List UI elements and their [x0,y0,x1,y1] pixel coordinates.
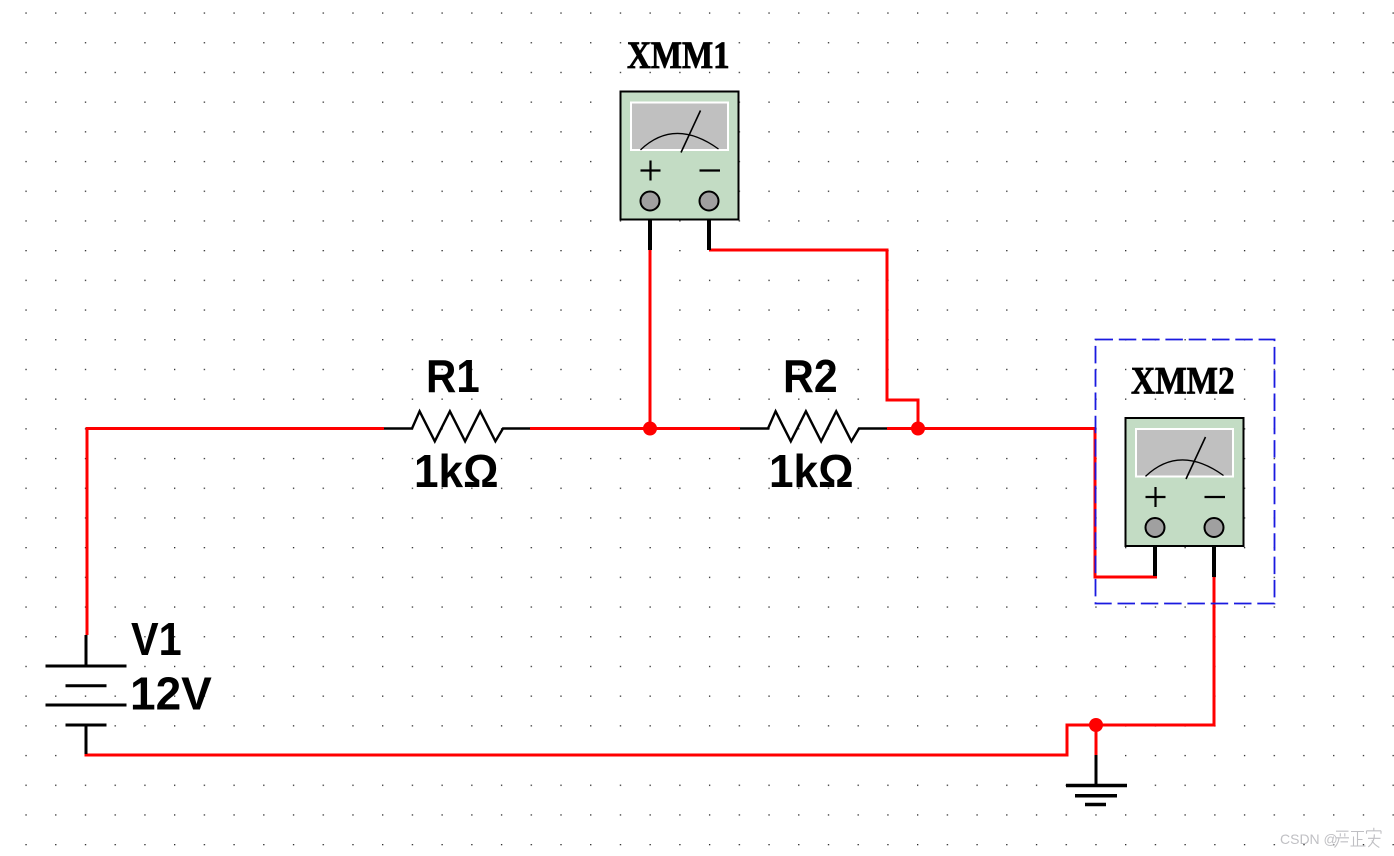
svg-text:V1: V1 [131,614,182,666]
svg-text:R1: R1 [426,351,480,402]
svg-text:R2: R2 [783,352,838,403]
svg-text:XMM2: XMM2 [1131,359,1235,402]
svg-text:CSDN @: CSDN @ [1280,831,1338,847]
svg-text:12V: 12V [130,668,212,720]
svg-text:1kΩ: 1kΩ [769,445,854,497]
svg-text:1kΩ: 1kΩ [414,445,499,497]
svg-text:XMM1: XMM1 [627,33,730,76]
